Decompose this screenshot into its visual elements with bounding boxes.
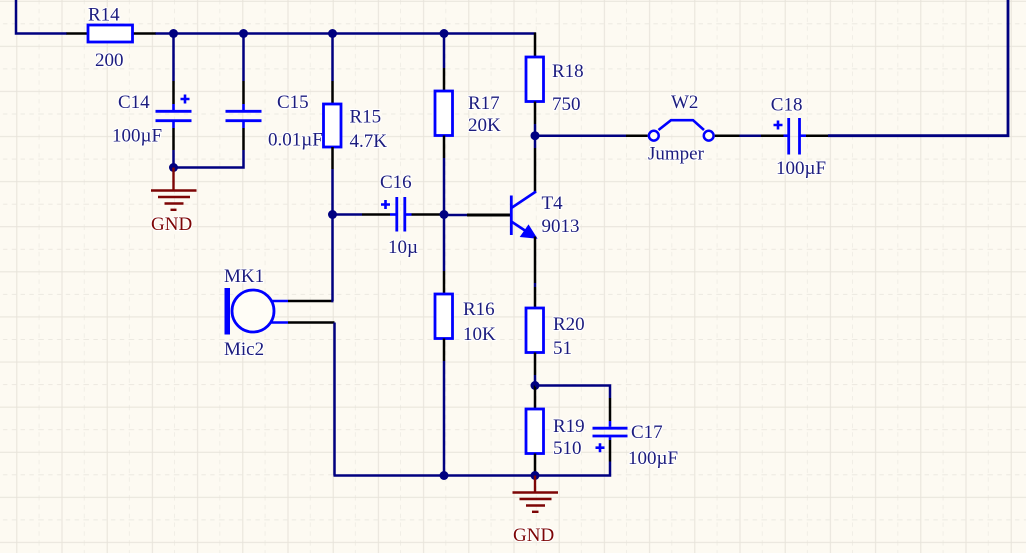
svg-text:10K: 10K	[463, 324, 496, 345]
svg-text:4.7K: 4.7K	[350, 131, 388, 152]
resistor R15	[324, 81, 388, 169]
wire R17 bottom	[443, 158, 446, 215]
capacitor C14	[112, 81, 192, 150]
wire bottom rail	[334, 474, 536, 477]
resistor R16	[435, 271, 496, 361]
wire C15 top	[242, 34, 245, 82]
wire C17 branch top	[535, 386, 610, 399]
wire R20 bottom	[534, 375, 537, 386]
node bottom rail junction R19	[531, 471, 540, 480]
svg-text:510: 510	[553, 438, 582, 459]
wire R16 bottom	[443, 361, 446, 476]
microphone MK1	[224, 266, 335, 360]
resistor R19	[526, 386, 585, 476]
svg-text:R17: R17	[468, 93, 500, 114]
svg-text:C17: C17	[631, 422, 663, 443]
svg-text:C16: C16	[380, 172, 412, 193]
wire C18 to right edge	[828, 0, 1008, 136]
wire W2 to C18	[740, 134, 762, 137]
svg-text:C15: C15	[277, 92, 309, 113]
wire top rail	[156, 32, 537, 35]
wire C16 left	[333, 213, 363, 216]
svg-text:GND: GND	[151, 214, 192, 235]
resistor R20	[526, 287, 585, 375]
jumper W2	[626, 92, 740, 165]
svg-text:200: 200	[95, 50, 124, 71]
node R20/R19 junction	[531, 381, 540, 390]
svg-text:GND: GND	[513, 525, 554, 546]
wire mic upper to C16 node	[333, 215, 334, 302]
svg-text:20K: 20K	[468, 115, 501, 136]
svg-text:W2: W2	[671, 92, 698, 113]
svg-text:R20: R20	[553, 314, 585, 335]
node C16 right junction	[440, 210, 449, 219]
svg-text:100µF: 100µF	[112, 126, 162, 147]
wire C17 branch bottom	[535, 462, 610, 476]
wire T4 emitter	[534, 237, 537, 284]
wire R15 bottom	[331, 169, 334, 215]
wire C16 right	[440, 213, 444, 216]
node bottom rail junction R16	[440, 471, 449, 480]
transistor T4	[467, 148, 580, 238]
svg-text:R15: R15	[350, 107, 382, 128]
wire top rail corner to R18	[534, 33, 537, 58]
wire R15 top	[331, 34, 334, 82]
wire T4 base	[444, 214, 467, 217]
svg-text:9013: 9013	[542, 216, 580, 237]
svg-text:C14: C14	[118, 92, 150, 113]
wire mic lower to bottom rail	[333, 323, 336, 476]
wire R18 bottom	[534, 124, 537, 136]
svg-text:100µF: 100µF	[776, 158, 826, 179]
svg-text:Jumper: Jumper	[648, 144, 705, 165]
ground GND1	[151, 168, 197, 236]
svg-text:0.01µF: 0.01µF	[268, 130, 323, 151]
wire collector node to W2	[535, 134, 626, 137]
resistor R17	[435, 68, 501, 158]
capacitor C16	[362, 172, 440, 258]
svg-text:R16: R16	[463, 299, 495, 320]
capacitor C17	[593, 398, 679, 469]
svg-text:MK1: MK1	[224, 266, 264, 287]
svg-text:51: 51	[553, 338, 572, 359]
wire C14 top	[172, 34, 175, 82]
node collector junction	[531, 131, 540, 140]
svg-text:R19: R19	[553, 416, 585, 437]
wire R16 top	[443, 215, 446, 272]
svg-text:750: 750	[552, 94, 581, 115]
svg-text:R18: R18	[552, 61, 584, 82]
svg-text:100µF: 100µF	[628, 448, 678, 469]
node C16 left junction	[328, 210, 337, 219]
capacitor C18	[761, 95, 828, 180]
wire top-left feed	[16, 0, 67, 34]
wire C15 bottom to GND link	[174, 150, 244, 168]
resistor R18	[526, 57, 584, 124]
svg-text:T4: T4	[542, 193, 564, 214]
svg-text:10µ: 10µ	[388, 237, 418, 258]
capacitor C15	[226, 81, 323, 151]
resistor R14	[67, 5, 157, 72]
wire C14 bottom	[172, 150, 175, 168]
svg-text:Mic2: Mic2	[224, 339, 264, 360]
svg-text:C18: C18	[771, 95, 803, 116]
svg-text:R14: R14	[88, 5, 120, 26]
ground GND2	[513, 476, 559, 547]
wire collector	[534, 136, 537, 148]
wire R17 top	[443, 34, 446, 69]
node top rail junction dots	[169, 29, 178, 38]
node GND junction	[169, 163, 178, 172]
